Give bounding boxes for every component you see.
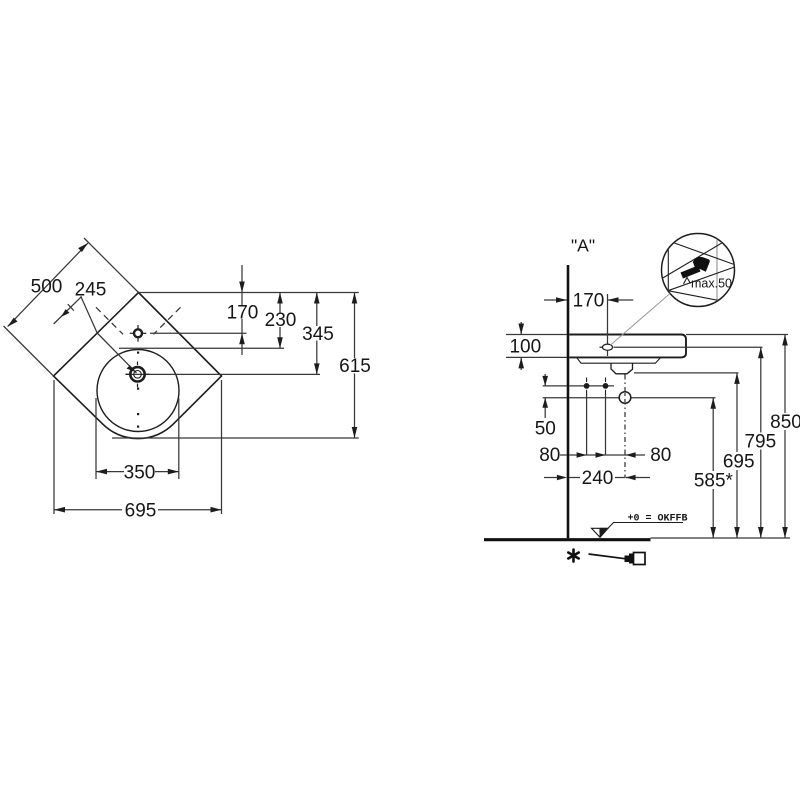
extension line tap hole level [150, 332, 247, 334]
245 leader to drain (45 deg segment) [97, 333, 136, 373]
dashed optional-fitting line right [154, 307, 181, 334]
svg-text:615: 615 [339, 356, 371, 377]
svg-text:100: 100 [509, 337, 541, 358]
fixing hole line [569, 385, 614, 387]
bowl vertical centreline dots [137, 352, 139, 428]
dimension 615 (rear edge to front edge) [354, 293, 356, 439]
small open arrow under bolt [684, 278, 691, 285]
dimension 345 (rear edge to drain) [316, 293, 318, 375]
dimension 500 (side of square, diagonal) [8, 243, 88, 327]
dimension 695 (overall width) [54, 380, 222, 514]
svg-text:230: 230 [265, 310, 297, 331]
fixing hole tick marks [587, 378, 606, 395]
dimension 230 (rear edge to bowl top) [279, 293, 281, 349]
extension lines left of wall (basin top / bottom) [506, 335, 567, 358]
svg-text:170: 170 [573, 291, 605, 312]
svg-text:500: 500 [31, 277, 63, 298]
footnote leader line [589, 554, 627, 559]
svg-text:795: 795 [744, 432, 776, 453]
floor line thick [484, 538, 651, 541]
dimension 585* (outlet height) [712, 398, 714, 538]
500 arrowheads [8, 318, 18, 327]
svg-text:max.50: max.50 [691, 277, 732, 291]
waste outlet circle [619, 392, 631, 404]
dimension 795 (tap hole height) [760, 347, 762, 538]
245 arrowhead on diagonal [61, 309, 70, 317]
asterisk footnote mark [568, 550, 578, 562]
extension lines left of wall (holes / outlet) [543, 386, 567, 398]
waste centreline dash-dot [624, 375, 626, 479]
extension line drain level [126, 373, 321, 375]
dimension 850 (rim height) [784, 335, 786, 539]
hole extension lines down [587, 394, 606, 455]
dimension 695 (stub height) [736, 373, 738, 538]
drain stub bottom extension right [634, 372, 739, 374]
svg-text:695: 695 [723, 452, 755, 473]
angle valve icon [625, 553, 646, 565]
extension line front edge level [112, 437, 359, 439]
svg-text:850: 850 [770, 412, 800, 433]
drain symbol (plan) [125, 362, 149, 388]
svg-text:350: 350 [124, 463, 156, 484]
outlet level line [569, 397, 715, 399]
floor baseline thin [651, 537, 791, 539]
500 extension from left corner [4, 326, 54, 376]
245 leader to drain (steep segment) [81, 296, 97, 333]
svg-text:80: 80 [539, 445, 560, 466]
svg-text:245: 245 [75, 280, 107, 301]
dimension 100 (basin thickness) [520, 322, 522, 370]
svg-text:585*: 585* [694, 471, 734, 492]
dimension 170 (wall to tap hole) [544, 299, 633, 301]
basin top extension right [686, 334, 788, 336]
dimension 50 (holes to outlet) [544, 374, 546, 418]
bolt head [693, 257, 710, 272]
svg-text:+0 = OKFFB: +0 = OKFFB [628, 514, 688, 525]
floor level symbol [592, 528, 609, 537]
svg-text:170: 170 [227, 303, 259, 324]
basin body section [569, 335, 686, 358]
tap hole symbol (section) [600, 344, 613, 350]
detail circle interior section lines [659, 238, 737, 304]
500 extension from top corner [84, 238, 139, 293]
svg-text:695: 695 [125, 501, 157, 522]
fixing hole left [584, 383, 590, 389]
extension line bowl top level [119, 347, 284, 349]
245 arrowhead at drain [127, 365, 136, 372]
dimension 170 (rear edge to tap hole) [241, 265, 243, 355]
tap hole symbol (plan) [130, 325, 147, 342]
bolt shaft [681, 266, 701, 279]
dimension 350 (bowl diameter) [96, 398, 179, 479]
drain trap stub [611, 363, 633, 374]
245 diagonal dimension segment [54, 296, 82, 324]
svg-text:"A": "A" [571, 236, 595, 256]
tap hole level line [614, 346, 763, 348]
svg-text:240: 240 [582, 468, 614, 489]
svg-text:50: 50 [535, 419, 556, 440]
basin outline (rotated square with front bowl bulge) [54, 293, 222, 439]
dimension 80/80 row [560, 454, 645, 456]
245 oblique tick [68, 304, 74, 310]
dimension 240 (wall to outlet) [544, 477, 650, 479]
tap hole centreline [607, 294, 609, 356]
inner bowl circle [97, 350, 179, 432]
dashed optional-fitting line left [96, 307, 123, 334]
level symbol leader [608, 523, 683, 529]
extension line rear corner level [139, 292, 359, 294]
svg-text:345: 345 [302, 324, 334, 345]
wall line [567, 265, 570, 538]
svg-text:80: 80 [650, 445, 671, 466]
basin underside [577, 357, 661, 363]
leader from detail circle to tap hole [611, 294, 671, 346]
fixing hole right [603, 383, 609, 389]
